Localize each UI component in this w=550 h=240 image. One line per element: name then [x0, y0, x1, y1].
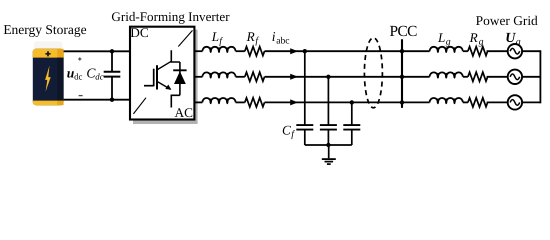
- resistor Rf c: [245, 98, 265, 107]
- svg-text:dc: dc: [74, 71, 82, 81]
- transistor Q1 (IGBT with diode): [144, 50, 187, 107]
- source Ug c: [508, 95, 522, 109]
- svg-text:DC: DC: [130, 25, 149, 40]
- wire Lg-Rg b: [463, 76, 468, 78]
- svg-text:AC: AC: [175, 105, 194, 120]
- wire source-bus c: [522, 101, 540, 103]
- resistor Rg a: [468, 47, 488, 56]
- box diagonal upper: [178, 30, 192, 46]
- capacitor Cf b: [320, 125, 337, 145]
- wire Lg-Rg c: [463, 101, 468, 103]
- body bar: [156, 65, 158, 89]
- box diagonal lower: [133, 98, 146, 114]
- wire phase b from inverter: [194, 76, 202, 78]
- svg-text:PCC: PCC: [390, 23, 418, 40]
- wire Cf common rail: [305, 144, 352, 146]
- svg-text:L: L: [437, 30, 445, 45]
- svg-text:i: i: [272, 29, 276, 44]
- ground: [322, 145, 336, 164]
- svg-text:Grid-Forming Inverter: Grid-Forming Inverter: [111, 9, 230, 24]
- wire battery+ to inverter: [64, 50, 131, 52]
- junction PCC b: [400, 75, 404, 79]
- svg-text:dc: dc: [95, 71, 103, 81]
- svg-text:g: g: [446, 36, 451, 47]
- node PCC bus: [401, 39, 403, 108]
- junction tap a: [303, 49, 307, 53]
- arrow i c: [290, 99, 298, 105]
- wire Cf drop b: [327, 77, 329, 125]
- junction C_dc top: [110, 49, 114, 53]
- gate lead: [144, 85, 154, 87]
- arrow i b: [290, 74, 298, 80]
- svg-text:Energy Storage: Energy Storage: [3, 22, 86, 37]
- wire Lf-Rf b: [236, 76, 245, 78]
- inductor Lf c: [202, 98, 235, 104]
- junction tap c: [350, 100, 354, 104]
- inductor Lf b: [202, 72, 235, 78]
- inductor Lg b: [430, 72, 463, 78]
- source Ug a: [508, 44, 522, 58]
- wire grid neutral bus: [539, 50, 541, 103]
- wire Rg-source a: [487, 50, 508, 52]
- inductor Lg a: [430, 47, 463, 53]
- collector diagonal: [157, 61, 171, 70]
- resistor Rf a: [245, 47, 265, 56]
- junction PCC a: [400, 49, 404, 53]
- source Ug b: [508, 70, 522, 84]
- svg-text:C: C: [282, 122, 291, 137]
- diode D1: [179, 62, 181, 95]
- resistor Rg b: [468, 72, 488, 81]
- collector lead: [171, 50, 180, 62]
- svg-text:R: R: [469, 30, 478, 45]
- wire Cf drop a: [304, 51, 306, 124]
- junction tap b: [326, 75, 330, 79]
- wire phase c from inverter: [194, 101, 202, 103]
- capacitor Cf a: [296, 125, 313, 145]
- capacitor C_dc: [104, 51, 121, 99]
- wire Lf-Rf c: [236, 101, 245, 103]
- resistor Rf b: [245, 72, 265, 81]
- wire Cf drop c: [351, 102, 353, 124]
- wire phase c Rf to Lg: [265, 101, 430, 103]
- inductor Lg c: [430, 98, 463, 104]
- junction rail center: [326, 143, 330, 147]
- svg-text:R: R: [246, 29, 255, 44]
- emitter diagonal with arrow: [157, 81, 171, 89]
- wire Lg-Rg a: [463, 50, 468, 52]
- battery B1: [33, 41, 64, 105]
- svg-text:L: L: [211, 29, 219, 44]
- wire battery- to inverter: [64, 99, 131, 101]
- capacitor Cf c: [343, 125, 360, 145]
- svg-text:abc: abc: [276, 36, 289, 47]
- wire Lf-Rf a: [236, 50, 245, 52]
- wire Rg-source c: [487, 101, 508, 103]
- polarity +: [78, 57, 81, 60]
- inductor Lf a: [202, 47, 235, 53]
- junction C_dc bottom: [110, 98, 114, 102]
- inverter box U1: [130, 25, 198, 124]
- wire source-bus b: [522, 76, 540, 78]
- wire phase a Rf to Lg: [265, 50, 430, 52]
- cable ellipse: [364, 38, 382, 108]
- wire source-bus a: [522, 50, 540, 52]
- junction PCC c: [400, 100, 404, 104]
- emitter lead: [171, 95, 180, 107]
- wire Rg-source b: [487, 76, 508, 78]
- wire phase b Rf to Lg: [265, 76, 430, 78]
- gate bar: [153, 69, 155, 87]
- arrow i a: [290, 48, 298, 54]
- wire phase a from inverter: [194, 50, 202, 52]
- svg-text:Power Grid: Power Grid: [476, 13, 538, 28]
- resistor Rg c: [468, 98, 488, 107]
- polarity -: [79, 95, 83, 97]
